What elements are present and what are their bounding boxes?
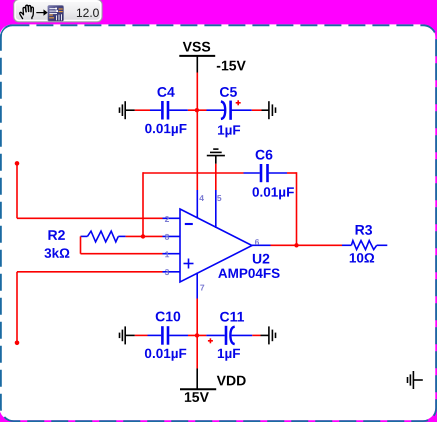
svg-text:VDD: VDD <box>217 372 247 388</box>
arrow <box>36 12 44 14</box>
svg-text:C4: C4 <box>157 84 175 100</box>
svg-text:C11: C11 <box>220 308 245 324</box>
hand pan icon <box>20 5 34 18</box>
wire R2 right to pin 8 <box>126 235 163 237</box>
wire output <box>271 244 343 246</box>
power rail VDD <box>180 369 216 390</box>
svg-text:0.01µF: 0.01µF <box>145 121 187 136</box>
capacitor C5 (polarized) <box>207 101 252 120</box>
wire feedback net <box>143 172 297 245</box>
plus mark C5 <box>236 100 241 105</box>
svg-text:R2: R2 <box>48 227 66 243</box>
svg-text:C5: C5 <box>219 84 237 100</box>
svg-text:-15V: -15V <box>216 57 246 73</box>
junction R2/feedback <box>141 234 145 238</box>
svg-text:AMP04FS: AMP04FS <box>218 266 280 281</box>
svg-text:1µF: 1µF <box>217 346 241 361</box>
wire input pin 2 <box>15 161 163 218</box>
svg-text:12.0: 12.0 <box>76 6 100 20</box>
svg-text:VSS: VSS <box>183 38 211 54</box>
power rail VSS <box>179 38 215 72</box>
wire top decoupling row <box>135 109 262 111</box>
svg-text:2: 2 <box>165 214 170 224</box>
svg-text:C10: C10 <box>155 308 181 324</box>
svg-text:6: 6 <box>255 237 260 247</box>
svg-text:4: 4 <box>199 193 204 203</box>
plus mark C11 <box>208 338 213 343</box>
svg-text:0.01µF: 0.01µF <box>252 185 294 200</box>
ground above pin 5 <box>207 149 225 164</box>
ground right of C11 <box>261 326 276 344</box>
svg-text:10Ω: 10Ω <box>349 250 375 265</box>
wire pin 7 to VDD <box>196 299 198 369</box>
ground bottom right (unconnected) <box>408 371 423 389</box>
op-amp U2 <box>163 190 271 299</box>
svg-text:U2: U2 <box>252 250 270 266</box>
capacitor C4 <box>150 101 188 120</box>
svg-text:0.01µF: 0.01µF <box>144 346 186 361</box>
wire VSS vertical to pin 4 <box>196 73 198 191</box>
capacitor C10 <box>148 326 189 345</box>
ground left of C10 <box>120 326 135 344</box>
svg-text:15V: 15V <box>184 389 210 405</box>
ground right of C5 <box>262 101 276 119</box>
junction output/feedback <box>294 243 298 247</box>
capacitor C6 <box>244 164 288 182</box>
ground left of C4 <box>120 101 135 119</box>
svg-text:C6: C6 <box>255 146 273 162</box>
svg-text:1: 1 <box>165 249 170 259</box>
capacitor C11 (polarized) <box>206 326 252 345</box>
wire bottom decoupling row <box>135 334 261 336</box>
mixer icon <box>48 5 64 21</box>
svg-text:5: 5 <box>217 193 222 203</box>
junction top row <box>195 108 199 112</box>
junction bottom row <box>195 333 199 337</box>
resistor R2 <box>81 231 126 242</box>
zoom toolbar <box>14 0 102 22</box>
svg-text:3: 3 <box>165 267 170 277</box>
wire R2 left to pin 1 <box>81 236 163 253</box>
svg-text:8: 8 <box>165 232 170 242</box>
wire ground to pin 5 <box>215 164 217 190</box>
svg-text:1µF: 1µF <box>217 123 241 138</box>
resistor R3 <box>342 241 387 250</box>
wire input pin 3 <box>15 272 163 345</box>
svg-text:3kΩ: 3kΩ <box>44 246 70 261</box>
svg-text:R3: R3 <box>355 222 373 238</box>
svg-text:7: 7 <box>200 282 205 292</box>
